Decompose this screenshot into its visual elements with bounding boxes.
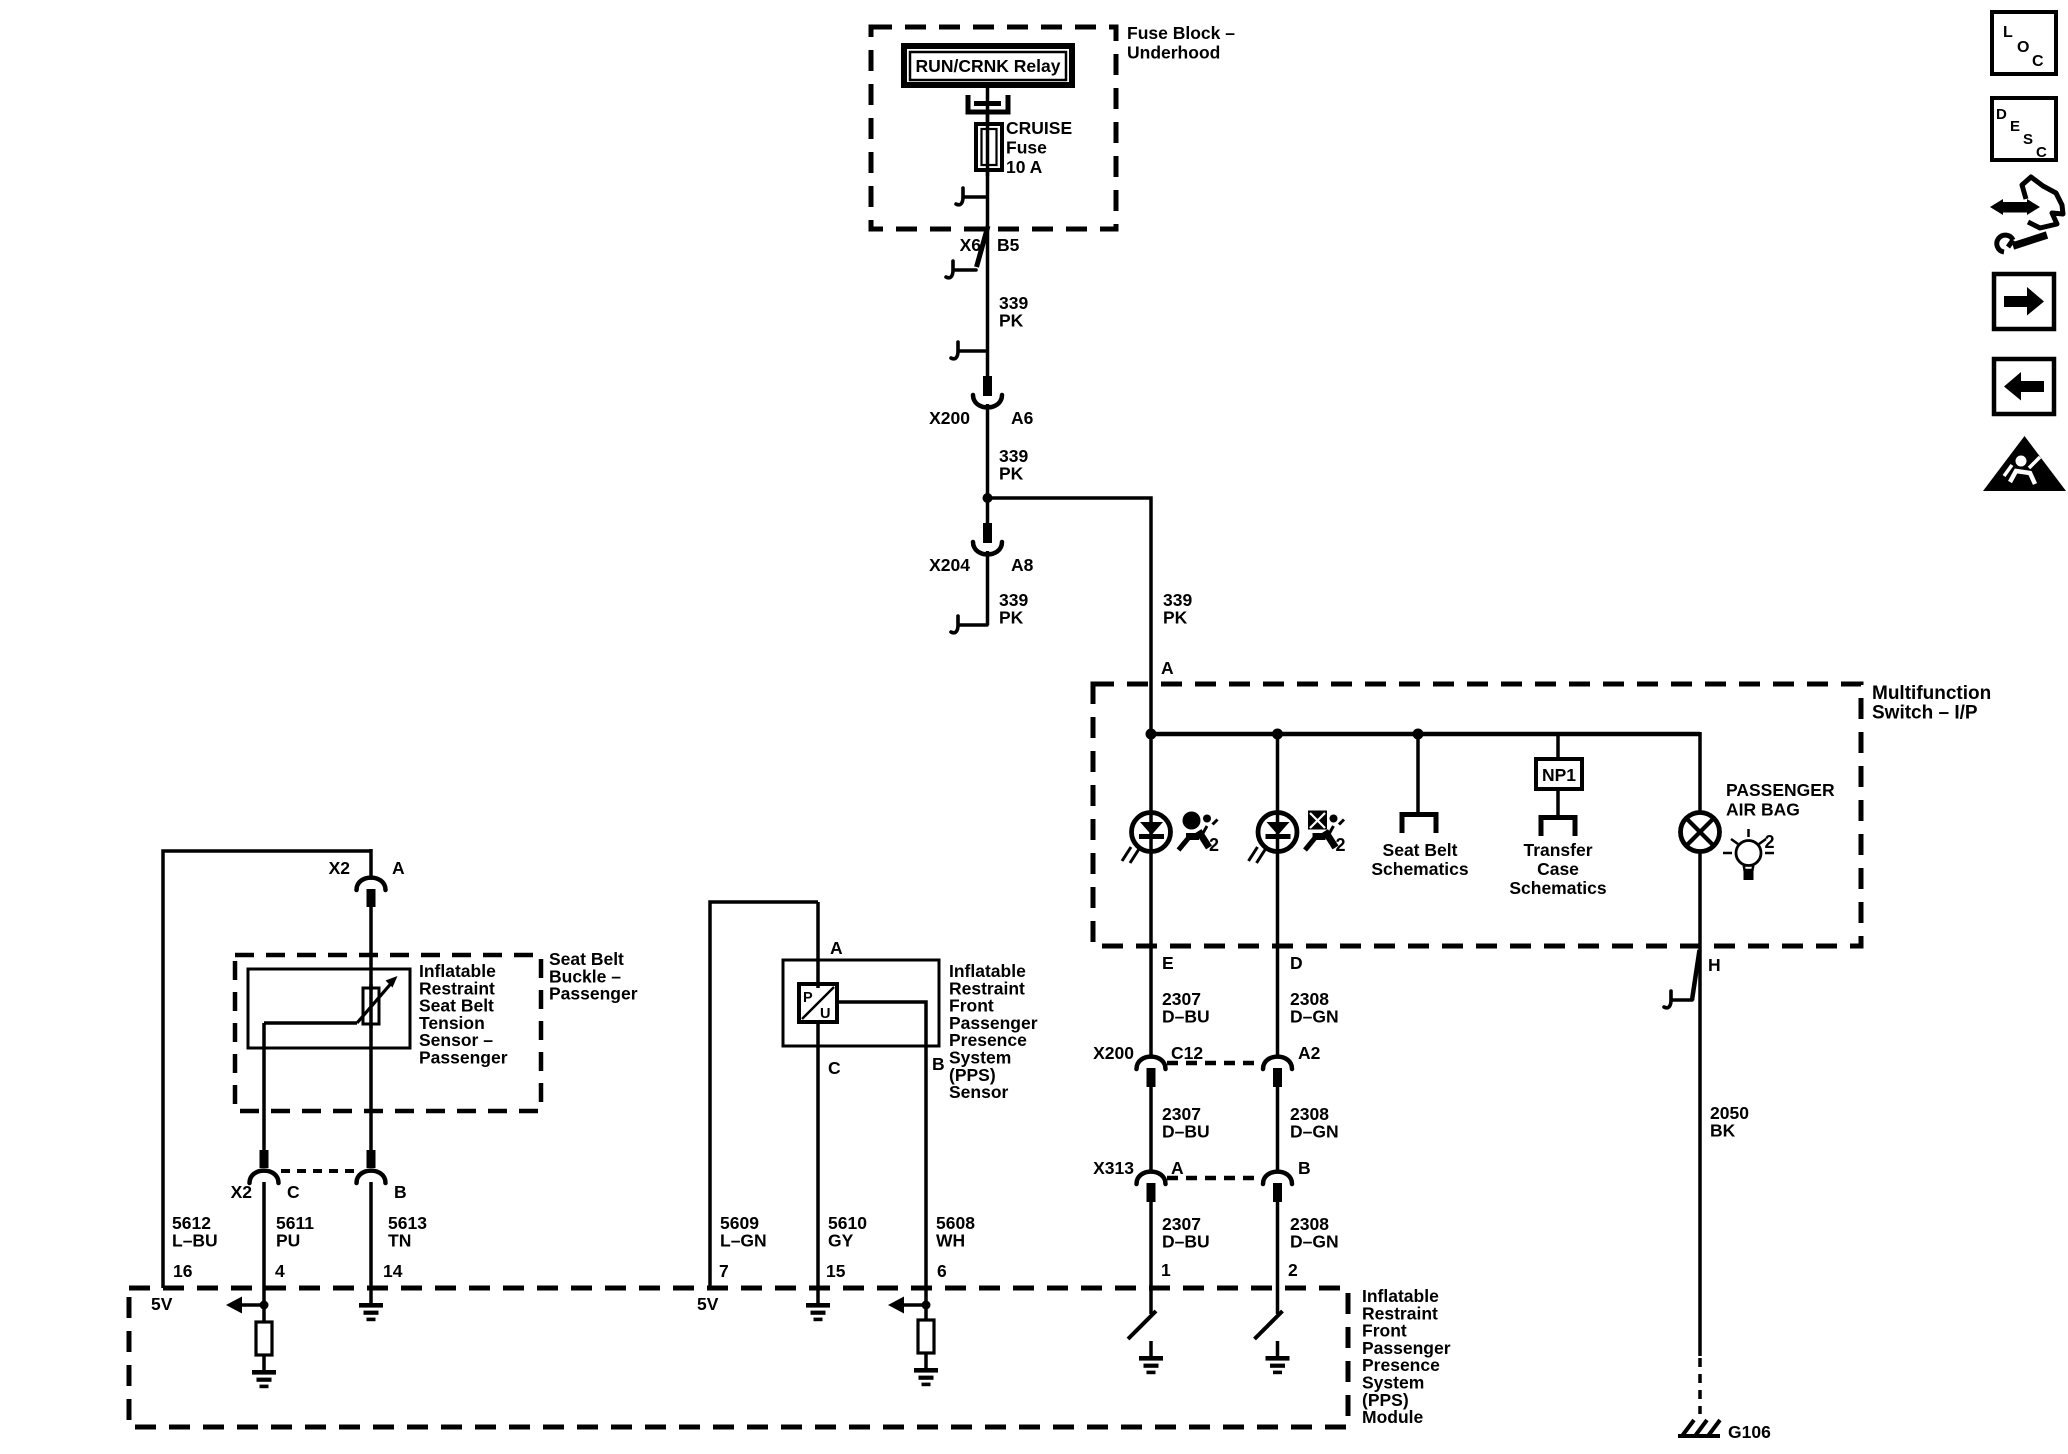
label: Multifunction Switch - I/P [1872, 683, 1991, 724]
svg-text:A: A [392, 858, 405, 878]
dashed mating line X313 [1167, 1176, 1262, 1181]
potentiometer (tension sensor) [357, 976, 398, 1028]
ground: pin 15 [806, 1288, 830, 1321]
icon box: DESC [1992, 98, 2056, 161]
svg-text:B: B [394, 1182, 407, 1202]
connector H boundary crossing [1692, 950, 1700, 1000]
svg-text:Underhood: Underhood [1127, 43, 1220, 63]
label: 339 PK (branch) [1163, 590, 1192, 627]
svg-text:5V: 5V [151, 1294, 173, 1314]
label: G106 [1728, 1422, 1771, 1442]
label: terminal H [1708, 955, 1721, 975]
icon box: arrow left [1994, 359, 2054, 414]
inline connector X2 A [329, 849, 405, 907]
svg-text:X2: X2 [329, 858, 351, 878]
wire: branch to I/P [988, 498, 1152, 736]
label: Fuse Block - Underhood [1127, 23, 1235, 63]
svg-text:AIR BAG: AIR BAG [1726, 800, 1800, 820]
svg-text:C: C [2036, 144, 2047, 161]
label: 339 PK (2) [999, 446, 1028, 483]
label: X2 C B [231, 1182, 407, 1202]
svg-text:2: 2 [1336, 835, 1346, 855]
wire: circuit 339 PK segment 2 [986, 404, 990, 525]
dashed mating line X200 [1167, 1061, 1262, 1066]
label: 339 PK (3) [999, 590, 1028, 627]
svg-text:Sensor: Sensor [949, 1082, 1009, 1102]
svg-text:PASSENGER: PASSENGER [1726, 780, 1835, 800]
svg-text:C: C [287, 1182, 300, 1202]
svg-text:PK: PK [999, 607, 1024, 627]
wire: sensor pin A [816, 902, 820, 988]
relay: RUN/CRNK Relay [904, 46, 1072, 85]
svg-text:RUN/CRNK Relay: RUN/CRNK Relay [916, 56, 1061, 76]
label: pin 14 [383, 1261, 403, 1281]
svg-text:U: U [820, 1006, 830, 1022]
svg-text:7: 7 [719, 1261, 729, 1281]
relay output terminal bracket [968, 95, 1008, 112]
svg-text:Schematics: Schematics [1371, 859, 1469, 879]
inline connector X313 B [1263, 1158, 1311, 1202]
icon: occupant with airbag (E) [1179, 812, 1220, 856]
signal arrow (pin 4) [226, 1297, 269, 1314]
label: terminal D [1290, 953, 1303, 973]
ground: SW1 [1139, 1356, 1163, 1374]
label: pin 16 [173, 1261, 193, 1281]
connector NP1 [1536, 759, 1582, 789]
box: PPS sensor body [783, 960, 939, 1046]
svg-text:15: 15 [826, 1261, 846, 1281]
svg-text:Fuse: Fuse [1006, 138, 1047, 158]
wire: 5613 TN [369, 1182, 373, 1288]
inline connector X200 C12 [1093, 1043, 1203, 1087]
label: pin 4 [275, 1261, 285, 1281]
wire: pin 4 into module [262, 1288, 266, 1322]
label: terminal A [1161, 658, 1174, 678]
dashed wire to G106 [1698, 1358, 1702, 1414]
wire: bus corner to lamp [1698, 732, 1702, 814]
label: 5V (middle) [697, 1294, 719, 1314]
svg-text:X2: X2 [231, 1182, 253, 1202]
label: circuit 5610 GY [828, 1213, 867, 1250]
wire: E segment 2 [1149, 1087, 1153, 1170]
label: Seat Belt Buckle - Passenger [549, 949, 638, 1004]
label: pin 2 [1288, 1260, 1298, 1280]
svg-text:C: C [828, 1058, 841, 1078]
ground: pin 6 [914, 1353, 938, 1386]
svg-text:D–GN: D–GN [1290, 1006, 1339, 1026]
svg-text:2: 2 [1288, 1260, 1298, 1280]
label: Seat Belt Schematics [1371, 840, 1469, 879]
svg-text:6: 6 [937, 1261, 947, 1281]
svg-text:Case: Case [1537, 859, 1579, 879]
svg-text:A2: A2 [1298, 1043, 1321, 1063]
icon: bulb (2) [1723, 829, 1775, 880]
label: 339 PK (1) [999, 293, 1028, 330]
svg-text:4: 4 [275, 1261, 285, 1281]
svg-text:G106: G106 [1728, 1422, 1771, 1442]
wire: sensor pin C [816, 1022, 820, 1288]
svg-text:Seat Belt: Seat Belt [1383, 840, 1458, 860]
label: circuit 5608 WH [936, 1213, 975, 1250]
icon: child seat with airbag (D) [1305, 811, 1346, 856]
lamp: PASSENGER AIR BAG indicator [1681, 813, 1720, 852]
icon box: LOC [1992, 12, 2056, 74]
junction: branch to multifunction switch [983, 493, 993, 503]
svg-text:A: A [830, 938, 843, 958]
indicator lamp LED D [1249, 813, 1298, 864]
svg-text:CRUISE: CRUISE [1006, 118, 1072, 138]
svg-text:NP1: NP1 [1542, 765, 1576, 785]
stub wire: Seat Belt Schematics [1416, 734, 1420, 814]
signal arrow (pin 6) [888, 1297, 931, 1314]
svg-text:P: P [803, 990, 813, 1006]
label: pin 15 [826, 1261, 846, 1281]
label: Inflatable Restraint Front Passenger Presence System (PPS) Sensor [949, 961, 1038, 1102]
icon box: arrow right [1994, 274, 2054, 329]
label: 5V (left) [151, 1294, 173, 1314]
wire: wiper to C [264, 1023, 357, 1152]
dashed box: Multifunction Switch - I/P [1093, 684, 1861, 946]
svg-text:E: E [2010, 118, 2020, 135]
ground: pin 14 [359, 1288, 383, 1321]
wire: relay to fuse [986, 88, 990, 124]
svg-text:Schematics: Schematics [1509, 878, 1607, 898]
svg-text:E: E [1162, 953, 1174, 973]
svg-text:D: D [1996, 106, 2007, 123]
icon: warning triangle (seat caution) [1983, 436, 2066, 491]
label: circuit 5609 L-GN [720, 1213, 767, 1250]
label: terminal B (sensor) [932, 1054, 945, 1074]
svg-text:C: C [2032, 53, 2044, 70]
svg-text:14: 14 [383, 1261, 403, 1281]
svg-text:2: 2 [1209, 835, 1219, 855]
terminator bracket: transfer case [1541, 818, 1575, 837]
svg-text:GY: GY [828, 1230, 854, 1250]
connector X6/B5 boundary crossing [960, 226, 1020, 267]
indicator lamp LED E [1122, 813, 1171, 864]
inline connector X2 C [250, 1150, 279, 1183]
svg-text:Module: Module [1362, 1407, 1424, 1427]
dashed box: Seat Belt Buckle - Passenger [235, 955, 541, 1111]
label: circuit 2308 D-GN (2) [1290, 1104, 1339, 1141]
svg-text:D–GN: D–GN [1290, 1231, 1339, 1251]
wire: lamp to H exit [1698, 850, 1702, 1356]
clip symbol below X6 [946, 261, 976, 278]
label: Inflatable Restraint Front Passenger Presence System (PPS) Module [1362, 1286, 1451, 1427]
switch SW1 (PPS module) [1128, 1311, 1156, 1357]
svg-text:Transfer: Transfer [1523, 840, 1592, 860]
label: Transfer Case Schematics [1509, 840, 1607, 898]
terminator bracket: seat belt [1402, 815, 1436, 834]
label: CRUISE Fuse 10 A [1006, 118, 1072, 177]
wire: 5V supply to X2 A [163, 851, 371, 1288]
label: terminal C (sensor) [828, 1058, 841, 1078]
wire: fuse to connector X6 [986, 170, 990, 228]
wire: pin 6 into module [924, 1288, 928, 1320]
box: tension sensor body [248, 969, 410, 1048]
svg-text:PK: PK [1163, 607, 1188, 627]
ground: pin 4 [252, 1355, 276, 1388]
wire: P/U to B [837, 1002, 926, 1288]
label: circuit 5613 TN [388, 1213, 427, 1250]
wire: X2 A to sensor [369, 907, 373, 990]
dashed box: Fuse Block - Underhood [871, 27, 1116, 229]
junction node at seat-belt branch [1413, 729, 1424, 740]
clip symbol above X200 [951, 342, 987, 359]
clip symbol below fuse [956, 188, 987, 205]
svg-text:D: D [1290, 953, 1303, 973]
svg-text:PK: PK [999, 310, 1024, 330]
wire: bus to NP1 [1556, 734, 1560, 759]
svg-text:X313: X313 [1093, 1158, 1134, 1178]
svg-text:B: B [1298, 1158, 1311, 1178]
svg-text:O: O [2017, 39, 2029, 56]
svg-text:B: B [932, 1054, 945, 1074]
svg-text:TN: TN [388, 1230, 411, 1250]
label: circuit 2308 D-GN (1) [1290, 989, 1339, 1026]
svg-text:L–BU: L–BU [172, 1230, 218, 1250]
svg-text:10 A: 10 A [1006, 157, 1043, 177]
svg-text:2: 2 [1765, 832, 1775, 852]
inline connector X200 A2 [1263, 1043, 1321, 1087]
label: pin 1 [1161, 1260, 1171, 1280]
svg-text:L: L [2003, 24, 2013, 41]
svg-text:1: 1 [1161, 1260, 1171, 1280]
svg-text:PU: PU [276, 1230, 300, 1250]
wire: circuit 339 PK segment 1 [986, 226, 990, 377]
svg-text:S: S [2023, 131, 2033, 148]
svg-text:D–GN: D–GN [1290, 1121, 1339, 1141]
label: terminal E [1162, 953, 1174, 973]
wire: D segment 2 [1276, 1087, 1280, 1170]
pressure sensor element P/U [799, 984, 837, 1022]
switch SW2 (PPS module) [1255, 1311, 1283, 1357]
svg-text:B5: B5 [997, 235, 1020, 255]
junction node at E branch [1146, 729, 1157, 740]
wire: sensor to X2 B [369, 1024, 373, 1152]
svg-text:A: A [1161, 658, 1174, 678]
svg-text:X200: X200 [1093, 1043, 1134, 1063]
label: terminal A (sensor) [830, 938, 843, 958]
dashed box: PPS Module [129, 1288, 1348, 1427]
label: circuit 2307 D-BU (3) [1162, 1214, 1210, 1251]
svg-text:D–BU: D–BU [1162, 1231, 1210, 1251]
svg-text:D–BU: D–BU [1162, 1006, 1210, 1026]
wire: E branch vertical [1149, 734, 1153, 1055]
svg-text:C12: C12 [1171, 1043, 1203, 1063]
label: circuit 5611 PU [276, 1213, 314, 1250]
svg-text:X6: X6 [960, 235, 982, 255]
svg-text:A8: A8 [1011, 555, 1034, 575]
clip at end of 339 PK wire [951, 616, 987, 633]
label: circuit 5612 L-BU [172, 1213, 218, 1250]
wire: 5611 PU [262, 1182, 266, 1288]
label: Inflatable Restraint Seat Belt Tension Sensor - Passenger [419, 961, 508, 1068]
label: PASSENGER AIR BAG [1726, 780, 1835, 820]
bus wire in multifunction switch [1151, 732, 1700, 737]
ground: SW2 [1266, 1356, 1290, 1374]
svg-text:D–BU: D–BU [1162, 1121, 1210, 1141]
wire: circuit 339 PK segment 3 [986, 551, 990, 625]
wire: D segment 3 [1276, 1202, 1280, 1314]
label: circuit 2307 D-BU (1) [1162, 989, 1210, 1026]
svg-text:L–GN: L–GN [720, 1230, 767, 1250]
inline connector X313 A [1093, 1158, 1184, 1202]
svg-text:Passenger: Passenger [549, 984, 638, 1004]
label: circuit 2308 D-GN (3) [1290, 1214, 1339, 1251]
svg-text:H: H [1708, 955, 1721, 975]
svg-text:Passenger: Passenger [419, 1048, 508, 1068]
dashed mating line X2 [281, 1169, 356, 1173]
wire: E segment 3 [1149, 1202, 1153, 1314]
label: pin 6 [937, 1261, 947, 1281]
svg-text:WH: WH [936, 1230, 965, 1250]
inline connector X200 A6 [929, 376, 1034, 428]
wire: NP1 to bracket [1556, 789, 1560, 815]
svg-text:A6: A6 [1011, 408, 1034, 428]
svg-text:Multifunction: Multifunction [1872, 683, 1991, 704]
fuse F: CRUISE Fuse 10 A [976, 112, 1002, 176]
svg-text:Switch – I/P: Switch – I/P [1872, 703, 1978, 724]
svg-text:PK: PK [999, 463, 1024, 483]
svg-text:A: A [1171, 1158, 1184, 1178]
svg-text:BK: BK [1710, 1120, 1736, 1140]
svg-text:Fuse Block –: Fuse Block – [1127, 23, 1235, 43]
svg-text:5V: 5V [697, 1294, 719, 1314]
label: circuit 2307 D-BU (2) [1162, 1104, 1210, 1141]
wire: D branch vertical [1276, 734, 1280, 1055]
resistor (pin 6) [918, 1320, 934, 1353]
wire: 5V supply to PPS sensor [710, 902, 818, 1288]
inline connector X204 A8 [929, 523, 1034, 575]
resistor (pin 4) [256, 1322, 272, 1355]
svg-text:X200: X200 [929, 408, 970, 428]
clip symbol below H [1664, 991, 1692, 1008]
svg-text:16: 16 [173, 1261, 193, 1281]
junction node at D branch [1272, 729, 1283, 740]
svg-text:X204: X204 [929, 555, 970, 575]
inline connector X2 B [357, 1150, 386, 1183]
icon: schematic navigation (arrows and wrench) [1990, 177, 2063, 252]
ground G106 (chassis) [1678, 1420, 1720, 1436]
label: pin 7 [719, 1261, 729, 1281]
label: circuit 2050 BK [1710, 1103, 1749, 1140]
